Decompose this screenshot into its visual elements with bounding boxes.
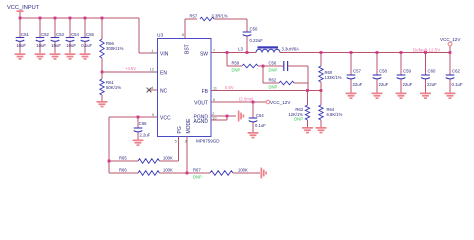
resistor R64 6.8K/1% [319,91,343,128]
resistor R66b 100K mode row [109,168,187,176]
svg-text:SW: SW [200,51,208,57]
svg-text:MODE: MODE [186,118,192,134]
wire SW net [211,51,256,54]
ground under C60 [420,93,431,99]
svg-text:AGND: AGND [194,119,209,125]
svg-text:VCC: VCC [160,115,171,121]
resistor R66 300K/1% [100,17,124,72]
resistor R57 3.3R/1% [190,14,228,21]
resistor R65 100K [109,137,179,164]
capacitor C51 [16,17,30,54]
capacitor C66 2.2uF [134,117,151,140]
capacitor C52 [36,17,50,54]
wire MODE pin stub [186,137,189,175]
capacitor C58 [373,51,389,92]
capacitor C55 [81,17,95,54]
svg-text:L3: L3 [238,47,243,52]
svg-text:10uF: 10uF [66,43,76,48]
svg-text:U3: U3 [157,33,163,39]
svg-text:VCC_12V: VCC_12V [270,100,291,105]
U3 pin numbers [150,33,217,144]
wire input rail VCC_INPUT [20,18,157,53]
svg-text:300K/1%: 300K/1% [106,46,124,51]
ground under C58 [372,93,383,99]
no-connect X on NC pin 4 [147,88,157,93]
wire VOUT rail [280,52,450,54]
svg-text:VIN: VIN [160,51,169,57]
svg-text:R57: R57 [190,14,198,19]
svg-text:C58: C58 [379,69,387,74]
svg-text:C59: C59 [403,69,411,74]
wire SW tap to feedforward [227,53,242,67]
power symbol VCC_INPUT [7,5,40,18]
svg-text:22uF: 22uF [403,82,413,87]
svg-text:C62: C62 [452,69,460,74]
ground under C55 [80,53,91,59]
svg-text:3.3R/1%: 3.3R/1% [212,14,228,19]
svg-text:10uF: 10uF [16,43,26,48]
ground under C51 [15,53,26,59]
svg-text:EN: EN [160,70,167,76]
ground under C53 [50,53,61,59]
net label VCC_12V on VOUT [266,100,291,105]
resistor R67 100K DNP [187,168,260,180]
capacitor C54 [66,17,80,54]
svg-text:C50: C50 [250,27,258,32]
svg-text:C52: C52 [41,32,49,37]
ground under C64 [248,132,259,138]
svg-text:C51: C51 [21,32,29,37]
svg-text:+4.5V: +4.5V [125,66,136,71]
svg-text:R67: R67 [193,168,201,173]
capacitor C59 [397,51,413,92]
svg-text:100K: 100K [238,168,248,173]
svg-text:R62: R62 [269,78,277,83]
svg-text:C53: C53 [56,32,64,37]
ground under C54 [65,53,76,59]
ground under C57 [346,93,357,99]
svg-text:6: 6 [213,98,215,102]
U3 pin stubs [149,31,219,145]
capacitor C57 [347,51,363,92]
svg-text:DNP: DNP [269,85,278,90]
svg-text:0.22uF: 0.22uF [250,38,264,43]
svg-text:11: 11 [213,86,217,90]
svg-text:R65: R65 [119,156,127,161]
power symbol VCC_12V [413,37,461,54]
wire VCC pin net [108,116,157,173]
svg-text:VOUT: VOUT [194,100,208,106]
svg-text:DNP: DNP [269,68,278,73]
resistor R63 12K/1% DNP [288,91,309,128]
svg-text:1: 1 [151,49,153,53]
op-amp U3 MP8759GD converter body [157,33,220,144]
svg-text:DNP: DNP [232,68,241,73]
svg-text:10uF: 10uF [36,43,46,48]
wire PGND AGND to ground [211,115,236,120]
svg-text:C56: C56 [269,61,277,66]
wire VOUT pin net [211,97,266,104]
capacitor C53 [51,17,65,54]
ground under R61 [97,101,108,107]
svg-text:C64: C64 [256,113,264,118]
wire EN net [102,66,157,72]
svg-text:7: 7 [213,48,215,52]
svg-text:MP8759GD: MP8759GD [196,139,220,144]
U3 pin names [160,44,209,133]
svg-text:R59: R59 [232,61,240,66]
svg-text:PG: PG [177,126,183,133]
svg-text:C55: C55 [86,32,94,37]
resistor R59 DNP [232,61,265,73]
ground under C59 [396,93,407,99]
svg-text:50K/1%: 50K/1% [106,85,121,90]
svg-text:133K/1%: 133K/1% [325,75,342,80]
svg-text:9: 9 [152,113,154,117]
resistor R61 50K/1% [100,71,121,101]
svg-text:0.1uF: 0.1uF [452,82,463,87]
svg-text:(2.5ms): (2.5ms) [239,97,254,102]
svg-text:0.6V: 0.6V [225,85,234,90]
svg-text:2: 2 [212,112,214,116]
svg-text:10uF: 10uF [51,43,61,48]
svg-text:0.1uF: 0.1uF [81,43,92,48]
wire feedforward down to FB [307,66,309,91]
svg-text:5: 5 [175,140,177,144]
ground under R64 [316,127,327,133]
ground under R63 [302,127,313,133]
inductor L3 3.3uH/6A [238,46,299,52]
capacitor C56 DNP [263,61,308,73]
wire FB net [211,85,322,92]
svg-text:2.2uF: 2.2uF [140,132,151,137]
svg-text:22uF: 22uF [379,82,389,87]
svg-text:FB: FB [202,89,209,95]
resistor R60 133K/1% [319,51,342,90]
svg-text:8: 8 [182,33,184,37]
svg-text:22uF: 22uF [353,82,363,87]
svg-text:100K: 100K [163,168,173,173]
resistor R62 DNP [263,66,308,90]
svg-text:DNP: DNP [294,117,303,122]
ground under C66 [133,140,144,146]
svg-text:R66: R66 [119,168,127,173]
svg-text:VCC_12V: VCC_12V [440,37,461,42]
svg-text:12: 12 [150,68,154,72]
capacitor C50 0.22uF [243,27,264,54]
capacitor C62 [446,53,463,93]
ground arrow sideways R67 [261,168,267,179]
capacitor C60 [421,51,437,92]
svg-text:DNP: DNP [193,174,202,179]
svg-text:22uF: 22uF [427,82,437,87]
svg-text:NC: NC [160,88,168,94]
ground under C62 [445,93,456,99]
capacitor C64 0.1uF [249,102,266,132]
svg-text:C60: C60 [428,69,436,74]
wire R57 to C50 [214,19,247,32]
svg-text:C66: C66 [139,121,147,126]
ground under C52 [35,53,46,59]
svg-text:6.8K/1%: 6.8K/1% [327,112,343,117]
svg-text:3: 3 [185,140,187,144]
svg-text:BST: BST [185,44,191,54]
svg-text:VCC_INPUT: VCC_INPUT [7,5,40,11]
svg-text:C57: C57 [353,69,361,74]
wire BST net [185,19,197,38]
svg-text:0.1uF: 0.1uF [255,123,266,128]
ground arrow sideways PGND [238,111,244,122]
svg-text:100K: 100K [163,156,173,161]
svg-text:3.3uH/6A: 3.3uH/6A [282,47,300,52]
svg-text:C54: C54 [71,32,79,37]
